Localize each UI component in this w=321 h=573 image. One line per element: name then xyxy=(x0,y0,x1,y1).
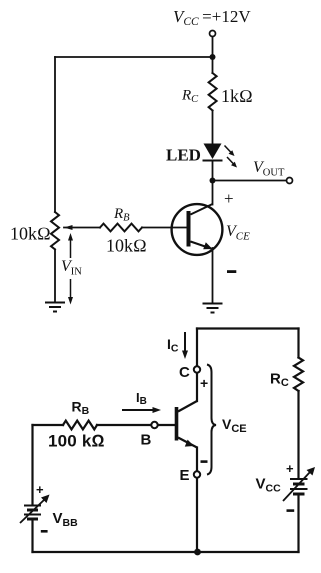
wiper arrow of potentiometer xyxy=(64,225,73,230)
transistor Q2 base bar xyxy=(175,407,179,441)
VIN measure arrow xyxy=(68,233,73,305)
transistor Q2 emitter line with arrow xyxy=(178,438,197,448)
wire: base lead from RB to base bar xyxy=(142,227,187,229)
junction dot top xyxy=(210,54,216,60)
svg-text:B: B xyxy=(141,432,152,449)
transistor Q2 collector line xyxy=(178,401,197,412)
wire: left horizontal to RB xyxy=(33,424,64,426)
wire: RC to LED anode xyxy=(212,111,214,144)
junction dot bottom xyxy=(194,549,201,556)
transistor Q1 collector line xyxy=(191,204,213,215)
svg-text:1kΩ: 1kΩ xyxy=(221,86,253,106)
terminal C open circle xyxy=(194,366,200,372)
LED cathode bar xyxy=(203,160,223,162)
LED light arrow 2 xyxy=(227,157,235,165)
wire: RC to VCC battery xyxy=(297,391,299,478)
label minus bottom xyxy=(201,460,208,463)
wire: bottom horizontal xyxy=(33,551,299,553)
terminal B open circle xyxy=(151,422,157,428)
wire: C terminal to collector xyxy=(196,373,198,402)
wire: VCC terminal to top junction xyxy=(212,37,214,58)
wire: E terminal down to bottom junction xyxy=(196,478,198,553)
svg-text:C: C xyxy=(179,364,190,381)
resistor RB 10k zigzag xyxy=(100,224,142,232)
wire: right vertical to RC xyxy=(297,329,299,358)
svg-text:10kΩ: 10kΩ xyxy=(10,224,51,244)
wire: junction down to resistor RC xyxy=(212,57,214,73)
transistor Q1 circle xyxy=(172,204,223,255)
wire: emitter down to ground xyxy=(212,248,214,304)
svg-text:+: + xyxy=(200,375,208,391)
battery VCC variable arrow xyxy=(283,467,315,501)
potentiometer 10k zigzag xyxy=(51,212,59,249)
wire: wiper to RB xyxy=(64,227,100,229)
wire: junction down to transistor collector xyxy=(212,181,214,205)
wire: B terminal to base bar xyxy=(158,424,176,426)
label minus VBB xyxy=(41,530,48,533)
junction dot VOUT xyxy=(210,178,216,184)
wire: LED cathode to VOUT junction xyxy=(212,161,214,181)
IB arrow xyxy=(122,407,161,413)
ground (emitter) xyxy=(203,304,223,313)
battery VBB variable arrow xyxy=(20,495,50,524)
svg-text:+: + xyxy=(224,189,234,208)
wire: pot bottom to ground xyxy=(54,249,56,302)
wire: left vertical VBB top xyxy=(31,425,33,505)
svg-text:LED: LED xyxy=(166,146,201,165)
svg-text:100 kΩ: 100 kΩ xyxy=(48,432,105,451)
wire: VCC battery to bottom xyxy=(297,495,299,552)
wire: left vertical down to C terminal xyxy=(196,329,198,367)
wire: VOUT horizontal xyxy=(213,180,287,182)
wire: top horizontal xyxy=(197,327,299,329)
LED diode triangle xyxy=(204,144,222,160)
resistor RC bottom zigzag xyxy=(294,358,303,392)
terminal VOUT open circle xyxy=(287,178,293,184)
resistor RB 100k zigzag xyxy=(63,421,97,430)
wire: top horizontal from junction to left rail xyxy=(55,56,213,58)
label minus VCE xyxy=(227,270,236,273)
svg-text:+: + xyxy=(286,461,294,476)
LED light arrow 1 xyxy=(225,146,238,168)
wire: left rail down to potentiometer xyxy=(54,57,56,212)
label minus VCC xyxy=(287,509,295,512)
terminal VCC open circle xyxy=(210,31,216,37)
transistor Q1 emitter line with arrow xyxy=(191,242,212,249)
transistor Q1 base bar xyxy=(187,211,191,247)
svg-text:10kΩ: 10kΩ xyxy=(106,236,147,256)
resistor RC 1k zigzag xyxy=(209,73,217,111)
wire: emitter vertical to E terminal xyxy=(196,448,198,472)
battery VBB xyxy=(24,506,41,520)
brace VCE xyxy=(207,365,216,475)
IC arrow xyxy=(182,332,188,359)
ground (potentiometer) xyxy=(45,303,65,312)
terminal E open circle xyxy=(194,471,200,477)
wire: RB to B terminal xyxy=(97,424,152,426)
svg-text:E: E xyxy=(180,467,190,484)
battery VCC xyxy=(290,479,308,494)
svg-text:+: + xyxy=(36,482,44,497)
wire: VBB battery to bottom xyxy=(31,521,33,553)
